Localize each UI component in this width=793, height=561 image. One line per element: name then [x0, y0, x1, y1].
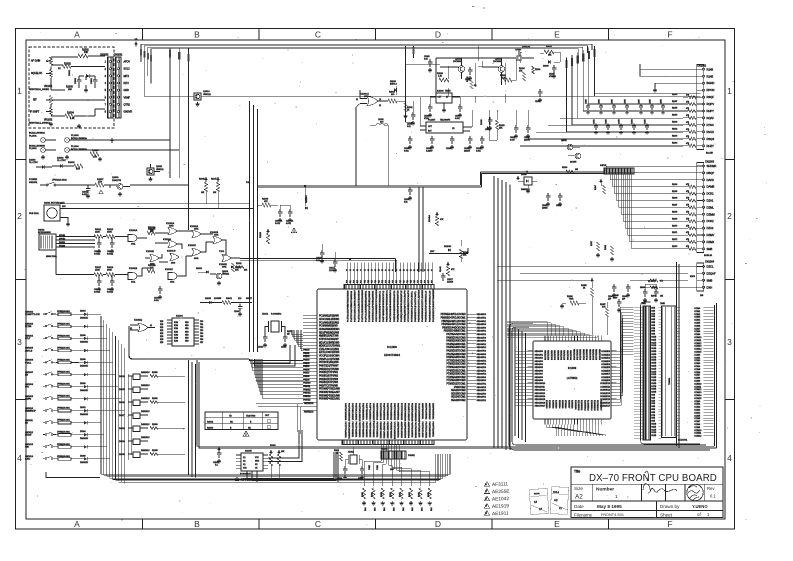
transistor Q1010 UN5211 [188, 91, 212, 106]
svg-text:10K: 10K [84, 52, 89, 54]
capacitors C1083 C1084 [275, 205, 294, 225]
svg-text:DAN202U: DAN202U [80, 341, 89, 344]
resistor R1002 [58, 64, 71, 71]
resistor R1043 [440, 262, 455, 276]
svg-text:S8B: S8B [651, 331, 655, 333]
svg-text:K8/SEG7: K8/SEG7 [567, 400, 569, 409]
IC1008 analog pin cluster left-bottom [303, 402, 317, 414]
svg-text:P53/WKP3/SEG29: P53/WKP3/SEG29 [414, 403, 416, 422]
resistor pack JPW1110 row 3 [56, 335, 79, 339]
svg-text:CN#1: CN#1 [641, 303, 646, 305]
svg-text:PL1003: PL1003 [71, 135, 79, 137]
svg-text:B: B [194, 519, 200, 529]
svg-text:VCC/COM3/SEG30: VCC/COM3/SEG30 [417, 403, 419, 423]
svg-text:P14: P14 [361, 280, 363, 283]
svg-text:PA1/SEG36/COM0: PA1/SEG36/COM0 [446, 353, 466, 356]
svg-text:Sheet: Sheet [660, 512, 673, 517]
svg-text:SEG48/V0: SEG48/V0 [477, 314, 487, 316]
svg-text:DAVD: DAVD [707, 178, 714, 182]
svg-text:S7B: S7B [651, 415, 655, 417]
svg-text:IC1062A: IC1062A [190, 225, 199, 228]
svg-text:0.01: 0.01 [404, 202, 408, 204]
svg-text:P82/SEG23/VD0: P82/SEG23/VD0 [429, 305, 431, 322]
svg-text:VR1001: VR1001 [44, 86, 53, 88]
PGB label [246, 182, 251, 184]
svg-text:P37/TP37/SEG2: P37/TP37/SEG2 [375, 422, 377, 439]
svg-text:RHPY: RHPY [707, 109, 715, 113]
svg-text:D1024: D1024 [119, 376, 126, 378]
svg-text:330/4T: 330/4T [246, 298, 253, 300]
svg-text:COM3/K15: COM3/K15 [600, 399, 611, 401]
svg-text:VSS/PLLCAP/V/W5: VSS/PLLCAP/V/W5 [319, 358, 340, 361]
svg-text:220/16: 220/16 [464, 151, 470, 153]
svg-text:PB6/SEG47/VD.0/COM1: PB6/SEG47/VD.0/COM1 [441, 318, 467, 320]
svg-text:P30/TP30/SEG18: P30/TP30/SEG18 [375, 403, 377, 421]
svg-text:D1030: D1030 [119, 454, 126, 456]
svg-text:64: 64 [432, 269, 434, 271]
bus verticals D into IC [419, 187, 423, 272]
svg-text:DAN202U: DAN202U [80, 413, 89, 416]
warning triangle C2 [291, 228, 297, 233]
svg-text:D1016: D1016 [80, 455, 86, 457]
svg-text:S6B: S6B [651, 325, 655, 327]
gate IC1001A [128, 229, 138, 246]
svg-text:D: D [435, 30, 441, 40]
svg-text:Q1004: Q1004 [495, 59, 502, 61]
svg-text:RPON: RPON [707, 88, 715, 92]
title text DX-70 FRONT CPU BOARD [574, 470, 717, 485]
svg-text:S7B: S7B [651, 328, 655, 330]
svg-text:LCD1001: LCD1001 [678, 440, 688, 442]
IC1008 top inside labels [347, 288, 435, 322]
diode D1020 DAN202U [516, 172, 537, 194]
svg-text:P62/IRQ5/TP2/W3: P62/IRQ5/TP2/W3 [319, 379, 339, 381]
svg-text:SEG47/V1: SEG47/V1 [477, 318, 487, 320]
resistor R1007 [95, 179, 104, 187]
svg-text:COM12: COM12 [694, 343, 702, 345]
svg-text:46: 46 [368, 269, 370, 271]
svg-text:P11: P11 [378, 280, 380, 283]
svg-text:S11B: S11B [651, 339, 656, 341]
bottom bundle from switch bus [101, 454, 450, 482]
svg-text:VCC/COM1/SEG1: VCC/COM1/SEG1 [376, 288, 378, 306]
svg-text:DAN202U: DAN202U [141, 423, 150, 426]
svg-text:FRONT4.S01: FRONT4.S01 [601, 513, 624, 517]
svg-text:R1066: R1066 [672, 198, 677, 200]
svg-text:Number: Number [596, 487, 614, 493]
gate IC1062B [210, 232, 222, 244]
svg-text:COM3: COM3 [694, 317, 701, 319]
svg-text:2SC4081: 2SC4081 [453, 61, 462, 63]
svg-text:S13/CE/INH: S13/CE/INH [583, 349, 585, 360]
svg-text:DAN202U: DAN202U [141, 449, 150, 452]
svg-text:R1001: R1001 [82, 50, 89, 52]
svg-text:R1068: R1068 [672, 212, 677, 214]
jack wires to bus drops [100, 140, 188, 185]
gate IC1003A [163, 238, 177, 248]
svg-text:P43/TMCI1/SEG2: P43/TMCI1/SEG2 [354, 403, 356, 421]
svg-text:P12: P12 [382, 280, 384, 283]
capacitor C1002 [82, 186, 90, 199]
svg-text:R1068: R1068 [409, 492, 411, 497]
svg-text:P81/SEG22/CLK: P81/SEG22/CLK [401, 290, 403, 307]
IC1008 top pin number strip [347, 269, 434, 271]
switch SW1005 [25, 348, 56, 353]
svg-text:RSQF: RSQF [707, 95, 715, 99]
svg-text:SEG40/V0: SEG40/V0 [477, 341, 487, 343]
title block signature [643, 471, 677, 493]
svg-text:BZH4.3: BZH4.3 [390, 84, 398, 86]
svg-text:D1020: D1020 [521, 174, 527, 176]
svg-text:220Y: 220Y [430, 251, 435, 253]
svg-text:S16/CE/INH: S16/CE/INH [593, 349, 595, 360]
title block box [571, 467, 723, 517]
svg-text:R1056: R1056 [152, 450, 158, 452]
svg-text:COM0/K16: COM0/K16 [600, 402, 611, 404]
svg-text:PA3/SEG38/COM2: PA3/SEG38/COM2 [446, 346, 466, 349]
regulator IC1005 TBL05 [430, 91, 460, 113]
IC1009 right pins [611, 351, 617, 405]
svg-text:PB3: PB3 [200, 330, 203, 332]
svg-text:SW1001: SW1001 [29, 182, 38, 184]
svg-text:R1065: R1065 [672, 191, 677, 193]
svg-text:P62/S10: P62/S10 [303, 383, 310, 385]
svg-text:SEG36/V0: SEG36/V0 [477, 354, 487, 356]
svg-text:PC1/AN10/K1B/W2: PC1/AN10/K1B/W2 [319, 321, 340, 324]
svg-text:P16: P16 [368, 280, 370, 283]
svg-text:C1025: C1025 [612, 99, 614, 104]
svg-text:C1014: C1014 [485, 129, 490, 131]
svg-text:P33/TP33/SEG2: P33/TP33/SEG2 [361, 422, 363, 439]
resistor R1005 [90, 150, 99, 159]
svg-text:SEG33/V3: SEG33/V3 [477, 364, 487, 366]
svg-text:P35/TP35/SEG23: P35/TP35/SEG23 [393, 403, 395, 421]
svg-text:CN#2: CN#2 [660, 303, 665, 305]
svg-text:2SC4081: 2SC4081 [493, 61, 502, 63]
svg-text:S16B: S16B [651, 354, 657, 356]
svg-text:40: 40 [347, 269, 349, 271]
svg-text:R1056: R1056 [672, 94, 677, 96]
svg-text:C1030: C1030 [535, 101, 540, 103]
svg-text:PB0: PB0 [200, 321, 203, 323]
svg-text:5.0000MHz: 5.0000MHz [271, 314, 281, 316]
switch SW1012 [25, 432, 56, 437]
svg-text:P15: P15 [364, 280, 366, 283]
transistor Q1009 [210, 271, 230, 285]
svg-text:RTSC: RTSC [707, 123, 714, 127]
svg-text:KOM: KOM [174, 322, 178, 324]
diode D1026 DAN202U [119, 397, 185, 405]
junction dots mid bus [304, 185, 351, 260]
svg-text:S19B: S19B [651, 363, 657, 365]
IC1009 right inside labels [600, 351, 611, 407]
svg-text:COM1/K9: COM1/K9 [601, 380, 611, 382]
svg-text:R1058: R1058 [672, 108, 677, 110]
svg-text:47R: 47R [93, 157, 97, 159]
IC left lowest pin wires [256, 404, 303, 435]
resistors R1048 R1047 mid [199, 177, 220, 209]
svg-text:220K: 220K [95, 232, 100, 234]
bottom single wire left [46, 472, 100, 478]
svg-text:P57/WKP7/SEG/W6: P57/WKP7/SEG/W6 [319, 389, 341, 391]
svg-text:C1002: C1002 [82, 192, 89, 194]
svg-text:S21B: S21B [651, 368, 657, 370]
svg-text:7BA/TRG: 7BA/TRG [246, 415, 256, 418]
svg-text:S11/CE/INH: S11/CE/INH [577, 349, 579, 360]
svg-text:D1002: D1002 [57, 158, 64, 160]
caps row2 upper right [594, 119, 650, 135]
svg-text:S17/CE/INH: S17/CE/INH [596, 349, 598, 360]
svg-text:0.22/50: 0.22/50 [426, 151, 432, 153]
svg-text:P33/TP33/SEG21: P33/TP33/SEG21 [386, 403, 388, 421]
svg-text:S5B: S5B [651, 322, 655, 324]
svg-text:DZA1: DZA1 [707, 199, 714, 203]
svg-text:P67/S7: P67/S7 [303, 373, 309, 375]
svg-text:P46/FTID/SEG1: P46/FTID/SEG1 [431, 422, 433, 438]
svg-text:S4/CE/INH: S4/CE/INH [555, 350, 557, 360]
svg-text:P15/TIOCB0/CL: P15/TIOCB0/CL [412, 290, 414, 306]
main dial encoder S1002 [38, 230, 58, 259]
gate IC1011Q [130, 320, 155, 332]
resistor R1028 vertical [260, 229, 270, 244]
IC left lower pin fan [250, 359, 304, 398]
diode resistor row D1015 R1042 [200, 298, 253, 316]
svg-text:R1073: R1073 [651, 281, 656, 283]
resistor R1022 [467, 76, 477, 89]
svg-text:COM2: COM2 [694, 360, 701, 362]
svg-text:220/16: 220/16 [542, 208, 548, 210]
svg-text:P42/TI1OC1: P42/TI1OC1 [304, 403, 313, 405]
svg-text:K6/SEG5: K6/SEG5 [561, 400, 563, 409]
svg-text:P73/SEG30/COM2: P73/SEG30/COM2 [446, 374, 466, 376]
svg-text:R1043: R1043 [440, 266, 442, 272]
svg-text:P63/S11: P63/S11 [303, 386, 310, 388]
svg-text:S0B: S0B [651, 395, 655, 397]
svg-text:A2: A2 [575, 494, 583, 501]
crystal X1001 [258, 314, 292, 349]
transistor Q1011 UN5211 [147, 164, 164, 181]
diode D1001 and caps C1001 C1003 [69, 69, 97, 85]
svg-text:TN4001: TN4001 [669, 377, 671, 385]
label VR1001 [29, 86, 53, 91]
svg-text:P46/FTID/SEG15: P46/FTID/SEG15 [365, 403, 367, 420]
svg-text:P13: P13 [414, 280, 416, 283]
svg-text:R1027: R1027 [591, 241, 593, 246]
svg-text:GND: GND [255, 461, 260, 463]
svg-text:SEG43/V1: SEG43/V1 [477, 331, 487, 333]
svg-text:SEG29/V3: SEG29/V3 [477, 377, 487, 379]
svg-text:IC1001C: IC1001C [165, 269, 173, 271]
svg-text:P87/SEG28/CL1: P87/SEG28/CL1 [380, 290, 382, 307]
svg-text:DAN202U: DAN202U [80, 317, 89, 320]
svg-text:S13B: S13B [651, 432, 657, 434]
svg-text:220/16: 220/16 [524, 140, 530, 142]
svg-text:15K: 15K [68, 89, 72, 91]
resistor R1033 [500, 58, 516, 82]
svg-text:P65/RXD1/TP5/W0: P65/RXD1/TP5/W0 [319, 369, 340, 371]
svg-text:P36/TP36/SEG24: P36/TP36/SEG24 [396, 403, 398, 421]
svg-text:LC75852: LC75852 [567, 376, 578, 380]
resistor pack JPW1110 row 11 [56, 432, 79, 436]
gate IC1002D [188, 245, 201, 260]
svg-text:COM13: COM13 [694, 346, 702, 348]
svg-text:0.001: 0.001 [154, 300, 159, 302]
svg-text:IC1002A: IC1002A [166, 222, 175, 225]
diode matrix vertical link [128, 374, 131, 460]
svg-text:COM9: COM9 [694, 381, 701, 383]
svg-text:COM1/K17: COM1/K17 [600, 406, 611, 408]
svg-text:UN5211: UN5211 [222, 274, 230, 276]
svg-text:CN1001: CN1001 [114, 55, 123, 57]
LED D1003 CL-170C [29, 160, 52, 169]
svg-text:COM7: COM7 [694, 328, 701, 330]
bus drop labels mid [169, 50, 190, 62]
svg-text:IC1011Q: IC1011Q [134, 320, 143, 322]
svg-text:P37/TP37/SEG25: P37/TP37/SEG25 [400, 403, 402, 421]
svg-text:PC2/AN11/K2B/W0: PC2/AN11/K2B/W0 [319, 315, 339, 318]
svg-text:R1003: R1003 [207, 428, 214, 430]
svg-text:S3B: S3B [651, 403, 655, 405]
resistor R1044b R1045 column [595, 185, 606, 194]
IC1009 top inside labels [545, 349, 601, 360]
resistor R1031 [403, 103, 412, 118]
switch SW1007 [25, 372, 56, 377]
svg-text:PB1: PB1 [200, 324, 203, 326]
IC1009 left inside labels [535, 351, 546, 407]
svg-text:R1057: R1057 [672, 101, 677, 103]
svg-text:SEG25/V3: SEG25/V3 [477, 390, 487, 392]
svg-text:S10B: S10B [651, 337, 657, 339]
svg-text:C1083A: C1083A [275, 220, 283, 223]
svg-text:470: 470 [660, 281, 663, 283]
svg-text:P63/IRQ6/TP3/W2: P63/IRQ6/TP3/W2 [319, 375, 339, 377]
svg-text:COM2/K2: COM2/K2 [601, 358, 611, 360]
diode D1008 column [481, 119, 490, 140]
svg-text:R1048: R1048 [199, 179, 205, 181]
svg-text:K14/SEG13: K14/SEG13 [587, 400, 589, 411]
svg-text:R1042: R1042 [226, 298, 233, 300]
svg-text:RQAF: RQAF [707, 116, 715, 120]
svg-text:52: 52 [389, 269, 391, 271]
bottom fan labels [369, 464, 395, 471]
svg-text:K17/SEG16: K17/SEG16 [596, 400, 598, 411]
svg-text:12: 12 [130, 328, 132, 330]
svg-text:XTAL/OSC1/X1/W2: XTAL/OSC1/X1/W2 [319, 348, 340, 351]
svg-text:RVUX: RVUX [707, 130, 715, 134]
svg-text:SEG35/V1: SEG35/V1 [477, 357, 487, 359]
transistor Q1001 2SA1576 [104, 177, 130, 196]
resistor R1046A [428, 212, 444, 226]
svg-text:P16/TIOCA1/PW: P16/TIOCA1/PW [407, 289, 410, 306]
svg-text:DCK1: DCK1 [707, 192, 715, 196]
svg-text:IC1008: IC1008 [387, 345, 397, 349]
svg-text:S9B: S9B [651, 421, 655, 423]
connector CN1003 pin labels [707, 164, 717, 251]
diode D1025 DAN202U [119, 384, 150, 392]
svg-text:P60/S8: P60/S8 [303, 376, 309, 378]
svg-text:P11/SEG2/CL10: P11/SEG2/CL10 [426, 290, 428, 306]
svg-text:SMB: SMB [707, 247, 713, 251]
svg-text:SEG25/COM0: SEG25/COM0 [451, 393, 466, 395]
capacitor C1017 [329, 252, 337, 272]
IC1009 right fan to LCD [617, 307, 634, 405]
svg-text:P97/WAIT/SEG9: P97/WAIT/SEG9 [379, 305, 382, 322]
svg-text:C1013: C1013 [258, 347, 263, 349]
svg-text:BC021-2W990A: BC021-2W990A [29, 132, 45, 135]
svg-text:DZML: DZML [707, 205, 715, 209]
svg-text:43: 43 [357, 269, 359, 271]
svg-text:SEG3/S3: SEG3/S3 [535, 361, 544, 363]
svg-text:IC1005: IC1005 [245, 451, 253, 453]
svg-text:P40/TMCI0/SEG: P40/TMCI0/SEG [410, 422, 412, 438]
svg-text:COM0: COM0 [694, 401, 701, 403]
svg-text:D1008: D1008 [481, 119, 483, 125]
svg-text:P95/SCK0/SEG7: P95/SCK0/SEG7 [355, 289, 357, 306]
connector CN1002 right label [697, 65, 707, 68]
bus drop at D column [406, 46, 415, 122]
thick bus y186 [258, 172, 604, 187]
svg-text:C1027: C1027 [639, 99, 641, 104]
svg-text:DXH: DXH [707, 285, 713, 289]
svg-text:GND: GND [124, 89, 130, 92]
svg-text:R1005: R1005 [92, 150, 99, 152]
svg-text:SEG13/S13: SEG13/S13 [535, 393, 546, 395]
svg-text:S10B: S10B [651, 424, 657, 426]
switch SW1011 [25, 420, 56, 425]
switch SW1014 [25, 456, 56, 461]
svg-text:IC1004: IC1004 [176, 316, 184, 318]
svg-text:RSQS: RSQS [707, 137, 715, 141]
capacitor C1009b [154, 286, 162, 302]
gate IC1003-D [356, 90, 388, 186]
svg-text:AVCC/AN12/KB/W1: AVCC/AN12/KB/W1 [319, 318, 340, 321]
svg-text:C1801: C1801 [91, 77, 93, 84]
svg-text:1.8K: 1.8K [70, 118, 75, 120]
svg-text:C1029: C1029 [661, 99, 663, 104]
svg-text:S1002: S1002 [38, 230, 45, 232]
svg-text:AN1/PB1/SEG32: AN1/PB1/SEG32 [400, 422, 403, 439]
connector CN1003 label [705, 161, 715, 164]
svg-text:R1073: R1073 [672, 246, 677, 248]
power switch SW1001 [29, 179, 95, 186]
svg-text:DZQAF: DZQAF [707, 271, 716, 275]
connector CN1004 pins [697, 265, 705, 288]
IC1009 body [533, 341, 611, 419]
svg-text:COM14: COM14 [694, 395, 702, 397]
tuner section dashed box [29, 47, 114, 128]
svg-text:S12B: S12B [651, 429, 657, 431]
svg-text:P85/SEG26/DO1: P85/SEG26/DO1 [387, 289, 389, 306]
svg-text:50: 50 [382, 269, 384, 271]
title block size cell [574, 486, 583, 501]
svg-text:P35/TP35/SEG2: P35/TP35/SEG2 [368, 422, 370, 439]
svg-text:C1014: C1014 [281, 347, 286, 349]
svg-text:0.0022: 0.0022 [94, 292, 101, 294]
gate IC1002A [166, 222, 177, 235]
svg-text:R1006: R1006 [68, 162, 75, 164]
IC1008 left pin stubs [303, 316, 317, 399]
capacitors right of IC1009 top [640, 281, 658, 302]
transistor Q1005 [440, 58, 465, 72]
svg-text:AM/FM: AM/FM [25, 397, 32, 400]
svg-text:PB3/SEG44/DO/COM0: PB3/SEG44/DO/COM0 [442, 327, 466, 329]
svg-text:R1024: R1024 [535, 69, 540, 71]
svg-text:P36/TP36/SEG2: P36/TP36/SEG2 [372, 422, 374, 439]
IC1009 top pins [545, 336, 601, 342]
svg-text:R1076: R1076 [651, 296, 656, 298]
svg-text:C1011: C1011 [465, 79, 470, 81]
connector CN1003 body outline [697, 163, 704, 253]
